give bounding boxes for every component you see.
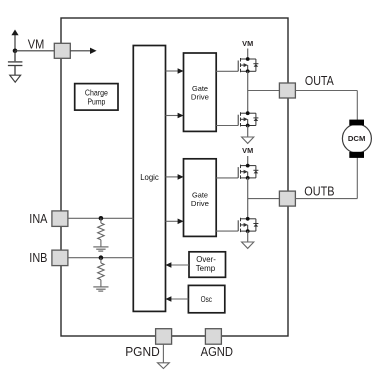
charge pump block (75, 84, 118, 111)
wire motor to OUTB pin (295, 158, 357, 199)
over-temp block (189, 252, 226, 277)
wire Q1 source to OUTA node (247, 71, 249, 113)
wire over-temp to logic (arrow) (165, 262, 189, 268)
svg-text:OUTA: OUTA (305, 73, 334, 88)
svg-text:INB: INB (29, 250, 47, 265)
svg-text:Temp: Temp (196, 264, 216, 273)
wire node to VM pin (15, 50, 54, 52)
node Q4 drain dot (246, 217, 250, 221)
motor brush (top) (349, 120, 364, 126)
pin OUTA (terminal square) (279, 83, 295, 98)
VM supply up arrow (11, 30, 18, 51)
transistor Q1 (high-side FET, bridge A) (238, 58, 258, 72)
resistor R1 (INA pulldown) (98, 218, 104, 246)
arrow VM pin into IC (70, 48, 96, 54)
node Q2 drain dot (246, 111, 250, 115)
transistor Q4 (low-side FET, bridge B) (238, 218, 258, 232)
node Q3 source dot (246, 176, 250, 180)
pin PGND (terminal square) (156, 329, 172, 345)
wire OUTB node to OUTB pin (248, 198, 280, 200)
wire Q4 source to ground (247, 231, 249, 242)
ground (open triangle) PGND (158, 363, 170, 369)
ground (earth) under R2 (93, 287, 108, 291)
ground (open triangle) bridge A (242, 137, 254, 143)
transistor Q3 (high-side FET, bridge B) (238, 165, 258, 179)
wire gate drive 2 to Q3 gate (216, 177, 238, 179)
ground (open triangle) under capacitor (10, 75, 21, 82)
svg-text:Drive: Drive (191, 93, 209, 102)
svg-text:OUTB: OUTB (304, 184, 334, 199)
capacitor C1 (bulk cap) (8, 51, 23, 75)
wire gate drive 2 to Q4 gate (216, 230, 238, 232)
wire INB pin to logic (68, 257, 133, 259)
motor M1 (DC motor body) (342, 124, 371, 153)
node Q1 source dot (246, 69, 250, 73)
node VM junction dot (13, 49, 18, 54)
svg-text:AGND: AGND (201, 344, 233, 359)
gate drive block 1 (184, 53, 217, 131)
wire gate drive 1 to Q1 gate (216, 70, 238, 72)
node Q2 source dot (246, 124, 250, 128)
svg-text:Over-: Over- (196, 255, 216, 264)
ground (open triangle) bridge B (242, 242, 254, 248)
wire Q2 source to ground (247, 126, 249, 138)
pin AGND (terminal square) (205, 329, 221, 345)
svg-text:VM: VM (242, 41, 253, 48)
osc block (188, 285, 224, 312)
transistor Q2 (low-side FET, bridge A) (238, 112, 258, 126)
wire logic to gate drive 1 (arrow, input 2) (166, 113, 184, 119)
pin INB (terminal square) (52, 250, 68, 266)
svg-text:DCM: DCM (348, 136, 366, 143)
wire osc to logic (arrow) (165, 296, 188, 302)
svg-text:Logic: Logic (140, 172, 159, 182)
resistor R2 (INB pulldown) (98, 258, 104, 287)
svg-text:Charge: Charge (85, 88, 108, 97)
svg-text:VM: VM (28, 36, 45, 51)
node Q4 source dot (246, 229, 250, 233)
svg-text:VM: VM (242, 148, 253, 155)
wire logic to gate drive 2 (arrow, input 1) (166, 174, 184, 180)
node Q1 drain dot (246, 57, 250, 61)
pin VM (terminal square) (54, 43, 70, 58)
wire gate drive 1 to Q2 gate (216, 125, 238, 127)
gate drive block 2 (184, 159, 217, 237)
motor brush (bottom) (349, 152, 364, 158)
node INB junction dot (99, 255, 104, 260)
svg-text:Pump: Pump (88, 97, 106, 106)
wire logic to gate drive 2 (arrow, input 2) (166, 219, 184, 225)
ground (earth) under R1 (93, 247, 108, 251)
svg-text:INA: INA (29, 211, 47, 226)
IC boundary outer box (61, 18, 288, 336)
wire PGND pin to ground (162, 344, 164, 363)
wire OUTA pin to motor (295, 91, 357, 121)
wire logic to gate drive 1 (arrow, input 1) (166, 68, 184, 74)
svg-text:Drive: Drive (191, 199, 209, 208)
logic block U1 (133, 46, 165, 312)
pin OUTB (terminal square) (279, 191, 295, 206)
pin INA (terminal square) (52, 211, 68, 227)
wire INA pin to logic (68, 217, 133, 219)
wire OUTA node to OUTA pin (248, 90, 280, 92)
svg-text:Osc: Osc (201, 295, 212, 304)
wire Q3 source to OUTB node (247, 178, 249, 219)
node INA junction dot (99, 216, 104, 221)
wire VM to Q1 drain (247, 49, 249, 60)
svg-text:PGND: PGND (125, 344, 160, 359)
wire VM to Q3 drain (247, 156, 249, 166)
node Q3 drain dot (246, 164, 250, 168)
